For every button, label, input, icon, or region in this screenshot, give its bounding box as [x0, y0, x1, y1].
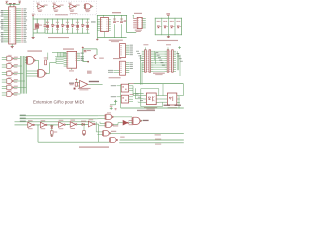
wire crystal left rail to ground [32, 19, 34, 37]
wire gate A output [35, 59, 39, 61]
connector X1 pins [142, 50, 145, 52]
wire V5 output down to rail [98, 124, 100, 142]
diode D10 (vertical) [51, 125, 53, 131]
IC U1 right pins and labels [16, 8, 21, 10]
IC U2 body [101, 18, 109, 32]
gate V3 inverter [59, 122, 64, 128]
label above IC3 [63, 48, 74, 49]
connector X2 pins [164, 50, 167, 52]
gate IC6A [38, 4, 43, 9]
wire routing bundle (gate column) [19, 56, 21, 94]
branch resistor R8 and ground [83, 124, 85, 130]
label on T4 output net [155, 139, 161, 140]
power symbol (top right of X2) [178, 47, 181, 49]
IC U9 driver body [137, 17, 142, 28]
junction marker (op-amp) [74, 88, 76, 90]
label below IC2 loop [109, 40, 123, 41]
net labels above y108 net [164, 105, 171, 106]
pin header SV2 body [120, 61, 126, 75]
IC U5 body [67, 51, 77, 68]
wire array vertical [72, 19, 74, 25]
power symbol (op-amp) [75, 78, 77, 80]
wire V3-V4 [65, 124, 70, 126]
wire bundle descending to MIDI block [140, 55, 142, 85]
gate U4B (4-input) [39, 70, 45, 78]
label left of SV1 [113, 58, 121, 59]
label below SUB-D [153, 73, 165, 74]
red marks below mid power [115, 107, 117, 110]
wire gate outputs to bundle [16, 58, 21, 60]
IC U8 pins [177, 95, 180, 97]
wire array vertical [57, 19, 59, 25]
net label VCC on rail [9, 3, 12, 4]
wire bottom feedback rail [38, 141, 110, 143]
label under y108 net [137, 110, 155, 111]
wire array vertical [62, 19, 64, 25]
junction marker [87, 61, 89, 63]
wire V2 output node [47, 124, 59, 126]
wire V4 output node [77, 123, 88, 125]
gate IC6B [54, 4, 59, 9]
label below dashed box center [70, 12, 78, 15]
wire array top rail [47, 18, 90, 20]
wire array bottom rail [45, 32, 90, 34]
wire bus to gate T1 [98, 115, 106, 117]
gate V4 inverter [70, 122, 75, 128]
diode D11 (series horizontal) [82, 123, 84, 125]
IC U1 left pins and labels [4, 10, 9, 12]
wire comb to IC3 pins [52, 51, 66, 53]
label op-amp output net [89, 81, 99, 82]
label W1 output net [143, 120, 149, 121]
IC U2 pins left [97, 18, 100, 20]
wire array vertical [87, 19, 89, 25]
connector J1 MIDI DIN [121, 84, 128, 92]
diode D23 (array) [82, 25, 84, 27]
gate U3C (column) [7, 71, 12, 76]
power symbol VCC (top-left) [6, 1, 9, 2]
power symbol VCC (crystal block) [32, 15, 34, 16]
label below SV2 [109, 77, 121, 78]
label on bottom rail [155, 144, 161, 145]
wire cap cluster [82, 49, 84, 62]
wire U2 bottom pin [104, 32, 106, 38]
ground symbol (U2 loop) [96, 38, 98, 40]
gate U4A (4-input) [27, 57, 33, 65]
ground symbol below IC1 [11, 45, 14, 47]
net labels SV2 bottom-left pins [113, 69, 119, 71]
wire right of X2 [176, 51, 178, 70]
wire inputs big gate A [25, 57, 27, 59]
inductor L1 [94, 55, 96, 58]
gate T4 (on bottom rail) [111, 138, 117, 143]
crystal Q1 [36, 24, 39, 28]
net label staircase (left of X1) [136, 50, 139, 53]
wire stubs above connectors [144, 47, 146, 49]
optocoupler U7 inner symbol [148, 97, 150, 99]
wire U7 to U8 [159, 95, 167, 97]
net labels SV1 pins [130, 44, 133, 47]
net label staircase (right of X2) [176, 52, 179, 55]
gate IC6D [85, 4, 90, 9]
resistor R6 (vertical) [75, 82, 77, 86]
wire array vertical [67, 19, 69, 25]
gate V1 inverter [28, 122, 33, 127]
power symbol above T1 [110, 105, 113, 108]
gate T2 [106, 122, 112, 127]
diode D21 (array) [62, 25, 64, 27]
wire driver loop [126, 16, 128, 33]
wire array vertical [82, 19, 84, 25]
wire V1-V2 [34, 124, 40, 126]
IC U5 pins left [64, 52, 67, 54]
label above X2 [166, 44, 171, 45]
wire long net (y108) [121, 107, 184, 109]
gate W1 (bottom right) [133, 117, 140, 124]
net labels SV2 pins [130, 61, 133, 64]
gate U3B (column) [7, 64, 12, 69]
label above driver IC [134, 13, 142, 14]
power symbol VCC (cap cluster) [82, 47, 84, 49]
capacitor C1 [44, 24, 47, 26]
net label staircase (between connectors) [155, 51, 158, 54]
label below U8 [168, 107, 178, 108]
wire diode array inner verticals [161, 18, 163, 35]
op-amp U6 [80, 80, 88, 88]
resistor R14 (array) [86, 25, 89, 28]
bus net 2 with label [20, 118, 26, 119]
resistor R10 (array) [46, 25, 49, 28]
wire crystal top rail [32, 16, 34, 19]
wire below IC3 and label [71, 68, 73, 70]
capacitor C5 (col 1) [114, 16, 116, 21]
label below U7 [144, 107, 157, 108]
label left of driver IC [124, 20, 127, 21]
wire mesh between connectors [153, 50, 164, 52]
capacitor C6 [84, 49, 87, 51]
wire op-amp output [88, 83, 103, 85]
section label 74HC gates [27, 50, 42, 51]
IC U2 pins right [109, 18, 111, 20]
ground symbol (crystal block) [32, 36, 35, 38]
gate U3D (column) [7, 79, 12, 84]
wire W1 output [141, 120, 142, 122]
wire feedback to bottom rail [37, 125, 39, 142]
wire IC2 loop [96, 16, 98, 38]
wire inputs big gate B [26, 70, 38, 72]
wire XTAL branches [36, 19, 38, 24]
resistor R13 (array) [76, 25, 79, 28]
wire T4 output net [120, 139, 184, 141]
wire array vertical [77, 19, 79, 25]
connector X1 (SUB-D) body [145, 50, 147, 72]
wire array vertical [52, 19, 54, 25]
label (cluster) [87, 71, 92, 74]
wire MIDI top bus [128, 83, 183, 85]
wire V5 output [95, 123, 98, 125]
power symbol (mid, near title) [114, 100, 117, 102]
wire MIDI routing [132, 86, 134, 96]
ground symbol (diode array) [167, 35, 169, 37]
resistor R12 (array) [66, 25, 69, 28]
net label left of U2 loop [91, 21, 96, 22]
label above array [55, 14, 68, 15]
label on second net [155, 134, 161, 135]
label above X1 [143, 44, 148, 45]
IC U5 pins right [77, 52, 80, 54]
wire gate B output to IC3 [46, 72, 50, 74]
wire array vertical [47, 19, 49, 25]
net label AVCC on rail [13, 3, 16, 4]
pin header SV1 pins [126, 44, 130, 46]
label below driver IC [135, 30, 142, 31]
bus net 3 with label [20, 121, 26, 122]
resistor R5 (small, near gate A) [45, 60, 47, 65]
IC U9 driver pins right (green) [142, 17, 146, 19]
optocoupler U7 pins [143, 95, 146, 97]
wire X2 to MIDI bus [179, 70, 181, 76]
svg-text:Extension GiRo pour MIDI: Extension GiRo pour MIDI [33, 100, 84, 105]
IC U9 driver pins left (red) [133, 17, 136, 19]
capacitor C6b (col 2) [121, 16, 123, 21]
IC U1 microcontroller body [9, 7, 16, 44]
wire driver top pin [132, 16, 134, 19]
gate T3 [103, 131, 109, 136]
wire and label into J2 [117, 96, 122, 98]
wire and label into J1 [117, 85, 122, 87]
connector J2 MIDI DIN [121, 95, 128, 103]
diode D20 (array) [52, 25, 54, 27]
optocoupler U7 body [146, 93, 156, 105]
gate IC6C [70, 4, 75, 9]
IC U8 body [167, 93, 176, 105]
crystal Q1 value label [39, 25, 42, 26]
net label staircase (MIDI) [136, 93, 139, 96]
dashed annotation frame [34, 1, 97, 15]
pin header SV2 pins [126, 62, 130, 64]
wire inverter chain input [15, 124, 28, 126]
connector X2 (SUB-D) body [167, 50, 169, 72]
diodes D1-D8 array [157, 21, 159, 22]
wire J1/J2 left chain [120, 84, 122, 108]
label below array [48, 37, 69, 38]
label op-amp value [78, 88, 91, 89]
diode D22 (array) [72, 25, 74, 27]
wire IC1 ground [11, 44, 13, 46]
gate V5 inverter [88, 121, 93, 127]
label bottom center [79, 146, 109, 147]
wire second long net [121, 132, 184, 134]
wire VCC rail to IC1 [6, 2, 8, 5]
ground symbol (below R7) [51, 134, 53, 135]
inverter V6 (filled triangle) [123, 120, 128, 125]
resistor R7 (vertical) [51, 131, 54, 134]
pin header SV1 body [120, 44, 126, 58]
wire loop around U7 [141, 88, 159, 90]
gate U3E (column) [7, 85, 12, 90]
resistor R11 (array) [56, 25, 59, 28]
bus net 1 with label [20, 115, 26, 116]
wire U2 top pin [103, 16, 105, 18]
gate U3F (column) [7, 92, 12, 97]
gate U3A (column) [7, 56, 12, 61]
gate V2 inverter [40, 122, 45, 127]
gate T1 [106, 114, 112, 119]
wire diode array frame [155, 18, 181, 35]
label above IC2 [112, 12, 121, 13]
power symbol (diode array top) [166, 13, 170, 14]
power symbol VCC (IC1 right top) [18, 1, 21, 2]
label below diode array [157, 40, 178, 41]
